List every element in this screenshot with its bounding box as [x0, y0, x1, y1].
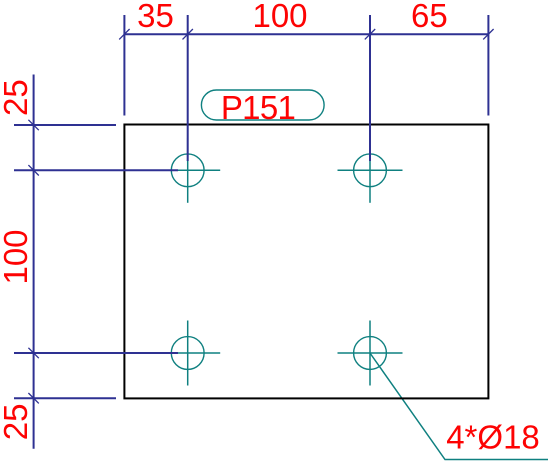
svg-text:100: 100 — [252, 0, 307, 34]
plate outline — [124, 125, 488, 399]
hole H3 bottom-left circle — [171, 337, 204, 370]
tick left dim y=125 — [28, 120, 38, 130]
label balloon P151 stadium — [201, 90, 324, 120]
hole H1 centerline vertical — [187, 138, 189, 203]
extension line top at plate right edge — [487, 15, 489, 116]
hole H1 centerline horizontal — [155, 169, 220, 171]
svg-text:25: 25 — [0, 79, 34, 116]
hole H4 centerline vertical — [369, 321, 371, 386]
hole H2 centerline vertical — [369, 138, 371, 203]
extension line left at hole row 2 — [14, 352, 178, 354]
svg-text:65: 65 — [411, 0, 448, 34]
extension line top at hole column 2 — [369, 15, 371, 161]
svg-text:25: 25 — [0, 404, 34, 441]
tick top dim x=124 — [119, 29, 129, 39]
hole H1 top-left circle — [171, 154, 204, 187]
tick left dim y=353 — [28, 348, 38, 358]
hole H2 top-right circle — [354, 154, 387, 187]
hole H4 centerline horizontal — [338, 352, 403, 354]
hole H3 centerline vertical — [187, 321, 189, 386]
tick left dim y=170 — [28, 165, 38, 175]
tick left dim y=398 — [28, 393, 38, 403]
svg-text:4*Ø18: 4*Ø18 — [446, 419, 540, 456]
tick top dim x=370 — [365, 29, 375, 39]
svg-text:100: 100 — [0, 229, 34, 284]
tick top dim x=188 — [183, 29, 193, 39]
extension line left at plate bottom edge — [14, 397, 116, 399]
extension line left at plate top edge — [14, 124, 116, 126]
svg-text:P151: P151 — [221, 89, 295, 126]
tick top dim x=488 — [483, 29, 493, 39]
hole H3 centerline horizontal — [155, 352, 220, 354]
extension line left at hole row 1 — [14, 169, 178, 171]
left dimension line — [33, 75, 35, 449]
extension line top at hole column 1 — [187, 15, 189, 161]
extension line top at plate left edge — [123, 15, 125, 116]
leader line to 4*Ø18 — [370, 354, 548, 460]
svg-text:35: 35 — [137, 0, 174, 34]
hole H2 centerline horizontal — [338, 169, 403, 171]
hole H4 bottom-right circle — [354, 337, 387, 370]
top dimension line — [124, 33, 488, 35]
